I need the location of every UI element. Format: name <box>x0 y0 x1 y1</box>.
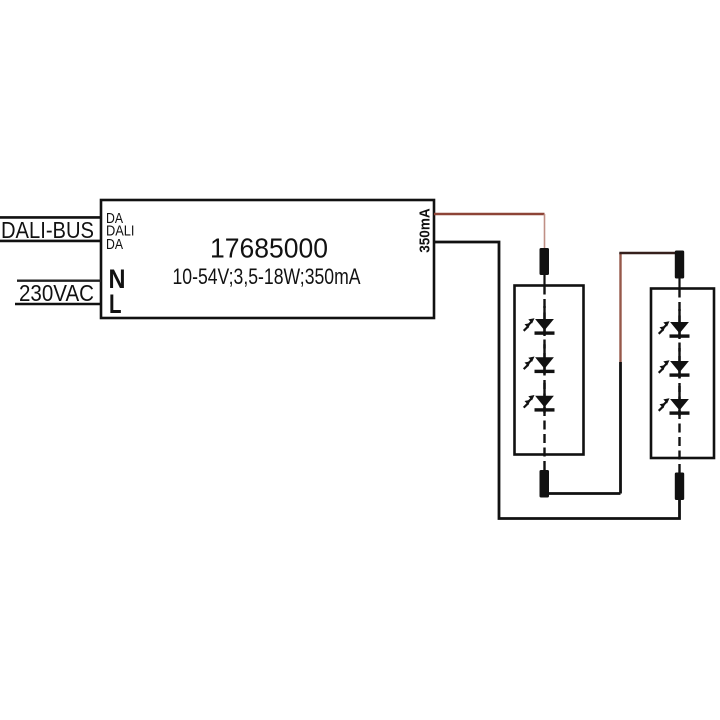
LED module 1 box <box>515 286 584 455</box>
wire output - (black) <box>434 242 680 519</box>
svg-text:L: L <box>109 289 122 319</box>
series wire to module 2 top (dark red) <box>619 252 675 254</box>
module 1 internal dashed line <box>543 286 545 471</box>
series riser black lower part <box>619 362 622 494</box>
stub wire terminal to module 1 box <box>543 275 545 286</box>
LED D2 <box>524 344 555 374</box>
wire 230VAC top <box>17 280 101 282</box>
series wire module1 bottom to riser <box>545 492 621 495</box>
terminal connector module 1 top <box>540 248 550 275</box>
stub wire terminal to module 2 box <box>678 279 680 290</box>
LED D1 <box>524 306 555 336</box>
LED D3 <box>524 383 555 413</box>
wire DALI-BUS bottom <box>0 240 101 243</box>
terminal connector module 1 bottom <box>540 470 550 498</box>
LED D4 <box>659 309 690 339</box>
svg-text:DALI-BUS: DALI-BUS <box>1 217 94 243</box>
driver box U1 <box>101 200 434 318</box>
LED D5 <box>659 348 690 378</box>
svg-text:17685000: 17685000 <box>210 233 328 264</box>
module 2 internal dashed line <box>678 289 680 473</box>
wire output + (red) horizontal <box>434 213 545 216</box>
svg-text:350mA: 350mA <box>417 208 434 253</box>
svg-text:DA: DA <box>106 237 123 253</box>
svg-text:230VAC: 230VAC <box>19 280 94 306</box>
wire 230VAC bottom <box>15 303 101 306</box>
terminal connector module 2 bottom <box>675 473 684 501</box>
LED D6 <box>659 386 690 416</box>
LED module 2 box <box>651 289 714 459</box>
wire output + (red) vertical drop to LED module 1 <box>544 214 546 248</box>
terminal connector module 2 top <box>675 251 684 279</box>
svg-text:10-54V;3,5-18W;350mA: 10-54V;3,5-18W;350mA <box>173 264 361 289</box>
series riser red upper part <box>619 253 621 362</box>
wire DALI-BUS top <box>0 216 101 219</box>
